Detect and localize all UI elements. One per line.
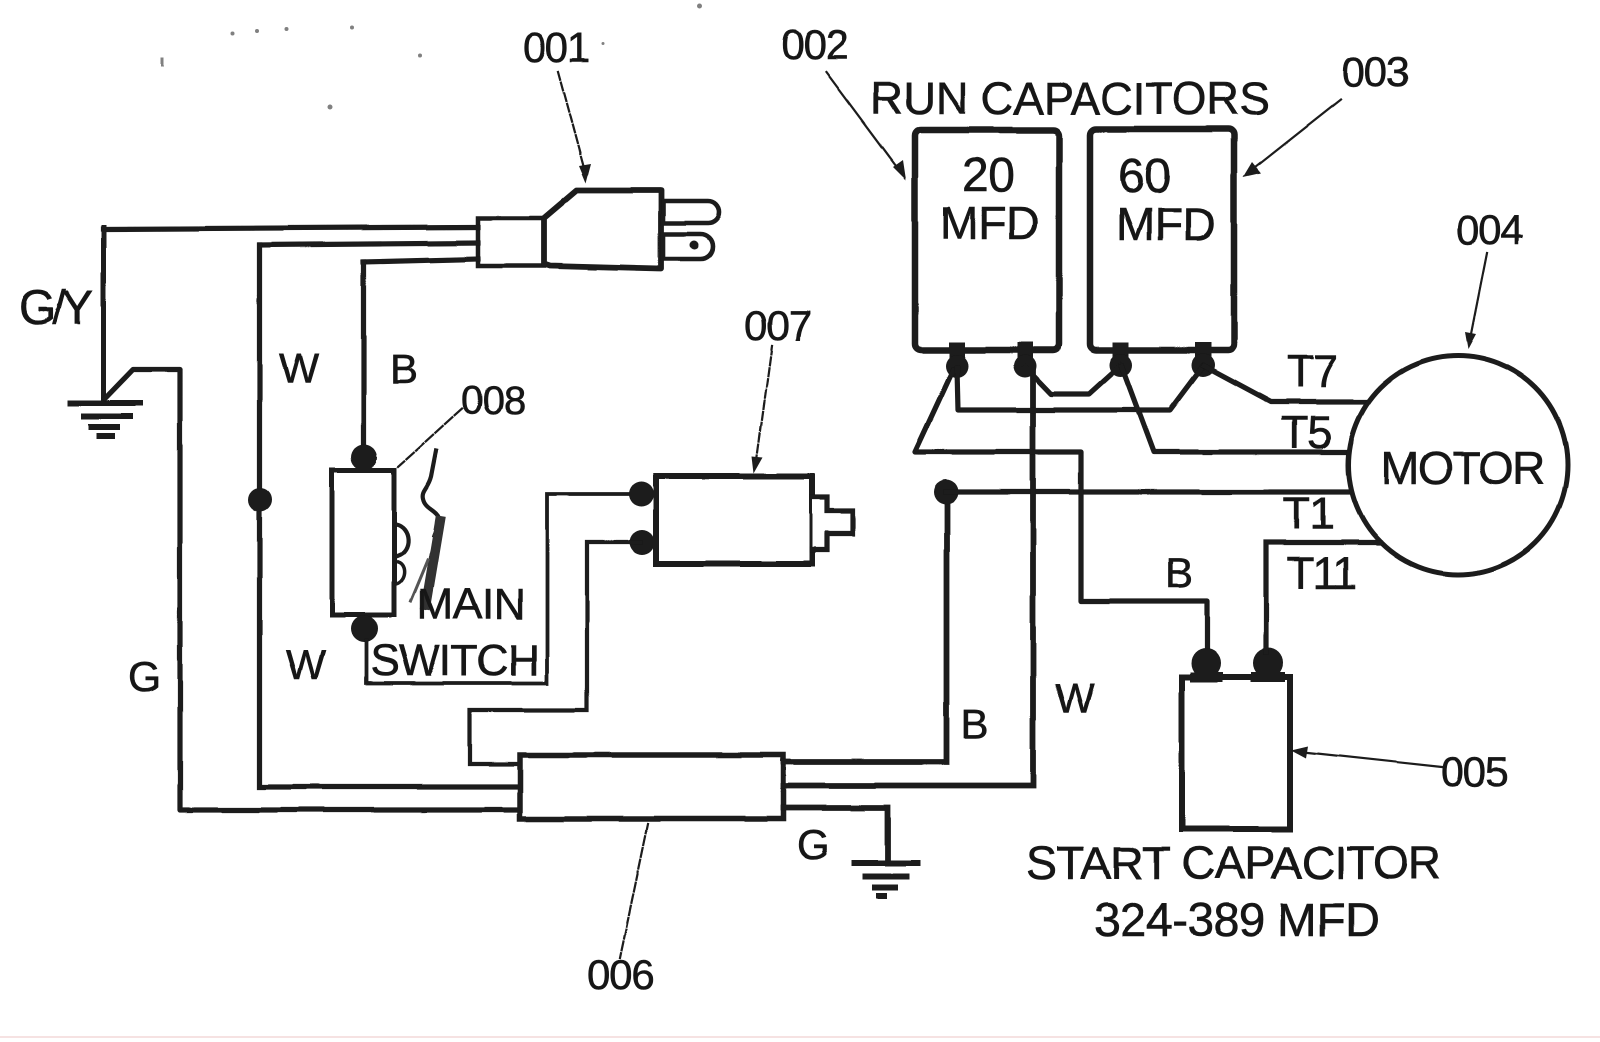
label arrow 005 (1291, 746, 1442, 767)
run capacitor C1 20 MFD (002) (915, 130, 1059, 378)
wire W cord (260, 243, 478, 245)
svg-text:005: 005 (1441, 748, 1507, 795)
wire W vertical (260, 245, 522, 787)
wire T1 node to motor (946, 489, 1352, 494)
wire T7 C2-right to motor (1204, 366, 1366, 402)
label arrow 002 (826, 72, 906, 180)
label arrow 001 (558, 72, 591, 183)
svg-text:MAIN: MAIN (417, 580, 525, 629)
wire switch bottom loop to relay (366, 494, 629, 683)
terminal strip TB1 (006) (520, 755, 783, 819)
svg-text:W: W (279, 345, 319, 392)
wire sag C1-right to C2-left (1025, 365, 1121, 394)
wire T5 C2-left to motor (1122, 366, 1349, 452)
svg-text:007: 007 (744, 302, 810, 349)
svg-text:60: 60 (1118, 150, 1170, 203)
node B junction (934, 480, 959, 505)
svg-text:MFD: MFD (940, 197, 1039, 249)
wire G strip to ground (783, 808, 888, 861)
svg-text:MFD: MFD (1116, 198, 1215, 250)
label arrow 004 (1465, 253, 1487, 349)
svg-text:SWITCH: SWITCH (370, 636, 539, 685)
faint scanner line bottom (0, 1036, 1600, 1038)
wire G/Y cord (103, 227, 478, 229)
wire B cord (363, 259, 478, 262)
wire G branch from ground (105, 369, 521, 810)
svg-text:MOTOR: MOTOR (1381, 442, 1544, 494)
wire B vertical to switch (361, 262, 366, 450)
main switch S1 (008) (332, 444, 440, 643)
wire B strip to node (783, 492, 947, 762)
svg-text:G: G (128, 653, 161, 700)
label arrow 003 (1243, 99, 1341, 177)
label arrow 007 (752, 346, 772, 473)
svg-text:008: 008 (461, 379, 525, 423)
wire bus C1-left to C2-right (957, 366, 1203, 410)
svg-text:001: 001 (523, 24, 589, 71)
svg-text:004: 004 (1456, 206, 1523, 253)
relay K1 (007) (629, 476, 854, 564)
svg-text:RUN CAPACITORS: RUN CAPACITORS (871, 73, 1269, 124)
svg-text:T7: T7 (1287, 346, 1338, 397)
svg-text:G/Y: G/Y (19, 282, 93, 335)
svg-text:T1: T1 (1283, 488, 1334, 539)
wire C1 left terminal to start-capacitor feed (915, 370, 1207, 652)
wire W strip to capacitor (783, 368, 1033, 786)
svg-text:W: W (1055, 675, 1095, 722)
wire G/Y drop (101, 227, 106, 399)
ground GND1 (71, 403, 140, 437)
svg-text:B: B (961, 700, 989, 747)
svg-text:324-389 MFD: 324-389 MFD (1094, 894, 1379, 947)
start capacitor C3 (005) (1182, 648, 1290, 829)
svg-text:T11: T11 (1287, 548, 1355, 599)
scan noise specks (161, 4, 703, 110)
svg-text:T5: T5 (1281, 407, 1332, 458)
svg-text:B: B (1165, 549, 1193, 596)
svg-text:006: 006 (587, 951, 653, 998)
node on W wire (248, 488, 272, 512)
svg-text:002: 002 (781, 21, 847, 68)
ground GND2 (855, 863, 917, 896)
run capacitor C2 60 MFD (003) (1090, 129, 1234, 377)
svg-text:G: G (797, 821, 830, 868)
svg-text:W: W (286, 641, 326, 688)
svg-text:20: 20 (962, 149, 1014, 202)
label arrow 008 (398, 409, 462, 467)
svg-text:003: 003 (1342, 48, 1408, 95)
wire relay bottom feed to strip (470, 542, 640, 764)
wire T11 start capacitor to motor (1266, 543, 1380, 652)
power plug P1 (001) (478, 190, 719, 269)
label arrow 006 (620, 824, 648, 958)
motor M1 (004) (1349, 356, 1568, 575)
svg-text:B: B (390, 345, 418, 392)
svg-text:START CAPACITOR: START CAPACITOR (1026, 837, 1441, 889)
